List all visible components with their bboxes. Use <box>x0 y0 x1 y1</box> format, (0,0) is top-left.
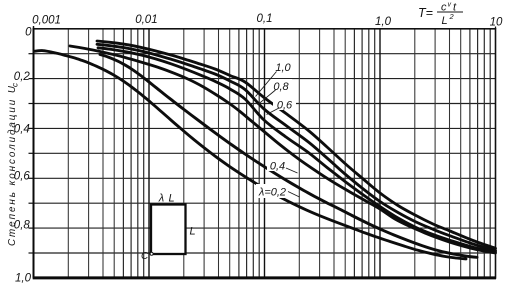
svg-text:1,0: 1,0 <box>15 273 32 284</box>
svg-text:0,8: 0,8 <box>273 81 289 93</box>
svg-text:λ=0,2: λ=0,2 <box>258 187 286 199</box>
white patch for curve labels <box>256 60 296 198</box>
leader line for label 0,4 <box>286 168 298 173</box>
leader line for label 0,8 <box>258 90 276 105</box>
svg-text:0,01: 0,01 <box>135 14 157 26</box>
svg-text:0,001: 0,001 <box>32 15 61 27</box>
svg-text:2: 2 <box>449 12 455 21</box>
svg-text:0,4: 0,4 <box>270 161 285 173</box>
logarithmic subdivision grid lines <box>67 29 69 278</box>
svg-text:0,2: 0,2 <box>14 71 31 83</box>
left axis tick marks <box>29 53 34 55</box>
fraction bar of formula <box>437 11 463 13</box>
left axis (thick) <box>33 28 35 278</box>
y axis title: Degree of consolidation Uc (rotated) <box>7 83 20 246</box>
plot frame axes <box>34 29 496 278</box>
svg-text:0: 0 <box>25 27 32 39</box>
svg-text:0,1: 0,1 <box>257 13 273 25</box>
svg-text:T=: T= <box>418 6 433 20</box>
curve lambda=0,4 <box>70 46 496 253</box>
curve instantaneous loading (unlabeled, leftmost) <box>35 51 467 259</box>
svg-text:L: L <box>168 193 174 205</box>
svg-text:10: 10 <box>490 16 503 28</box>
svg-text:λ: λ <box>158 193 164 205</box>
svg-text:L: L <box>442 15 448 27</box>
horizontal grid lines U=0.1..0.9 <box>34 53 496 55</box>
corner point marker <box>150 252 153 255</box>
vertical decade grid lines 0.01, 0.1, 1.0 <box>148 29 150 278</box>
svg-text:C: C <box>141 251 149 262</box>
svg-text:0,6: 0,6 <box>277 99 293 111</box>
svg-text:v: v <box>448 1 452 8</box>
curve lambda=0,6 <box>98 48 496 252</box>
curve lambda=0,8 <box>97 44 496 250</box>
corner overshoot ticks at 0.001 and 10 <box>33 26 35 29</box>
curve lambda=0,2 <box>100 55 477 258</box>
leader line for label 0,6 <box>267 108 280 115</box>
bottom axis (thick) <box>33 276 496 279</box>
svg-text:c: c <box>11 83 20 87</box>
svg-text:L: L <box>190 226 196 238</box>
svg-text:1,0: 1,0 <box>275 62 291 74</box>
inset square (soil element sketch) <box>141 193 196 263</box>
leader line for label lambda=0,2 <box>288 192 300 198</box>
leader line for label 1,0 <box>256 72 277 97</box>
curve lambda=1,0 (topmost) <box>97 41 496 248</box>
svg-text:1,0: 1,0 <box>375 16 392 28</box>
